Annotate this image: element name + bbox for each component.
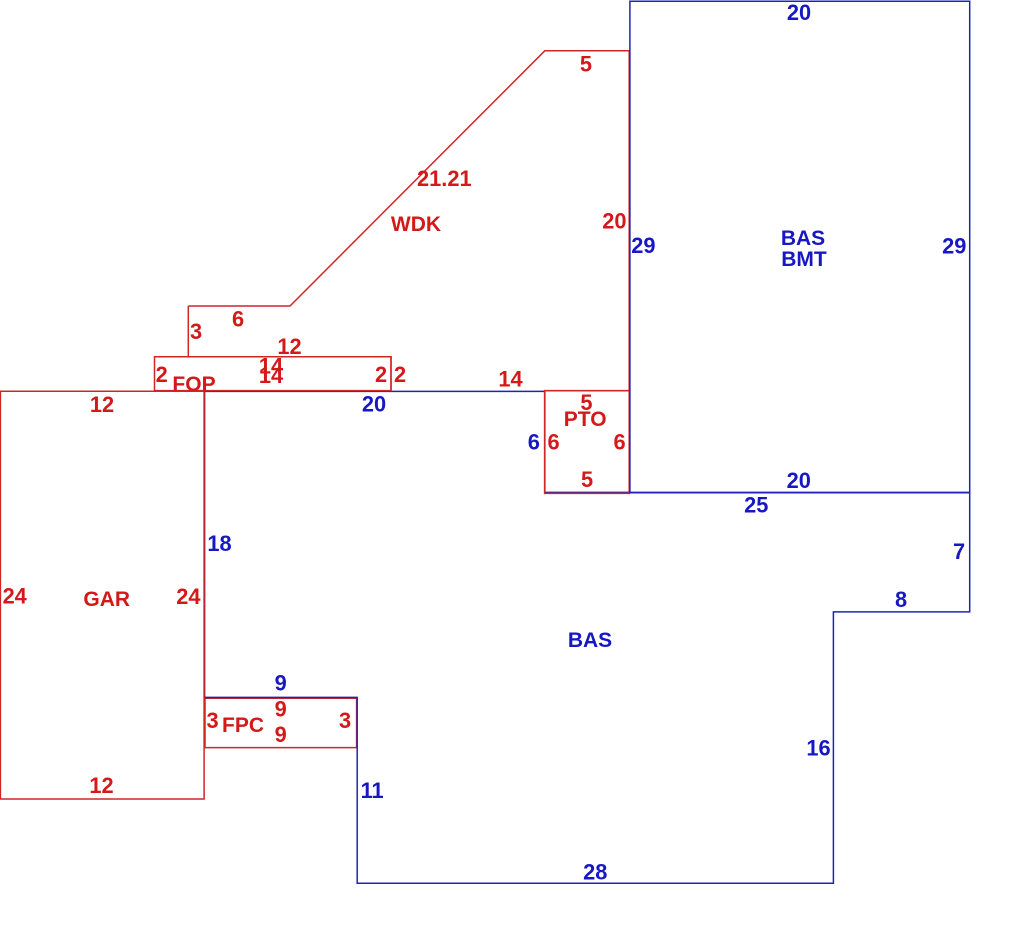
svg-text:3: 3 — [339, 708, 351, 733]
svg-text:20: 20 — [362, 392, 386, 417]
svg-text:9: 9 — [275, 722, 287, 747]
base area BAS polygon (blue) — [205, 391, 970, 883]
svg-text:WDK: WDK — [391, 213, 441, 236]
svg-text:21.21: 21.21 — [417, 166, 472, 191]
svg-text:2: 2 — [375, 362, 387, 387]
porch FPC rect (red) — [205, 698, 357, 747]
basement BMT rect (blue) — [630, 1, 970, 493]
svg-text:14: 14 — [259, 363, 283, 388]
svg-text:PTO: PTO — [564, 408, 607, 431]
svg-text:3: 3 — [190, 319, 202, 344]
svg-text:BAS: BAS — [781, 227, 825, 250]
svg-text:11: 11 — [361, 778, 384, 803]
svg-text:20: 20 — [602, 209, 626, 234]
svg-text:2: 2 — [394, 362, 406, 387]
svg-text:BAS: BAS — [568, 629, 612, 652]
patio PTO rect (red) — [545, 391, 630, 494]
svg-text:7: 7 — [953, 539, 965, 564]
svg-text:6: 6 — [232, 307, 244, 332]
svg-text:20: 20 — [787, 468, 811, 493]
svg-text:BMT: BMT — [781, 248, 827, 271]
svg-text:25: 25 — [744, 493, 768, 518]
svg-text:24: 24 — [176, 584, 200, 609]
svg-text:29: 29 — [631, 233, 655, 258]
svg-text:6: 6 — [528, 430, 540, 455]
garage GAR rect (red) — [0, 391, 204, 799]
svg-text:8: 8 — [895, 587, 907, 612]
svg-text:6: 6 — [547, 430, 559, 455]
svg-text:12: 12 — [89, 773, 113, 798]
wood deck WDK outline (red) — [188, 51, 629, 391]
svg-text:FPC: FPC — [222, 714, 264, 737]
svg-text:GAR: GAR — [83, 588, 130, 611]
svg-text:6: 6 — [614, 430, 626, 455]
svg-text:9: 9 — [275, 697, 287, 722]
svg-text:29: 29 — [942, 234, 966, 259]
svg-text:2: 2 — [156, 362, 168, 387]
porch FOP rect (red) — [155, 357, 392, 391]
svg-text:14: 14 — [498, 366, 522, 391]
svg-text:9: 9 — [275, 671, 287, 696]
svg-text:3: 3 — [206, 708, 218, 733]
svg-text:20: 20 — [787, 0, 811, 25]
svg-text:FOP: FOP — [172, 373, 215, 396]
svg-text:5: 5 — [580, 51, 592, 76]
svg-text:24: 24 — [3, 584, 27, 609]
svg-text:18: 18 — [207, 531, 231, 556]
svg-text:12: 12 — [90, 392, 114, 417]
svg-text:16: 16 — [806, 736, 830, 761]
svg-text:5: 5 — [581, 467, 593, 492]
svg-text:28: 28 — [583, 860, 607, 885]
